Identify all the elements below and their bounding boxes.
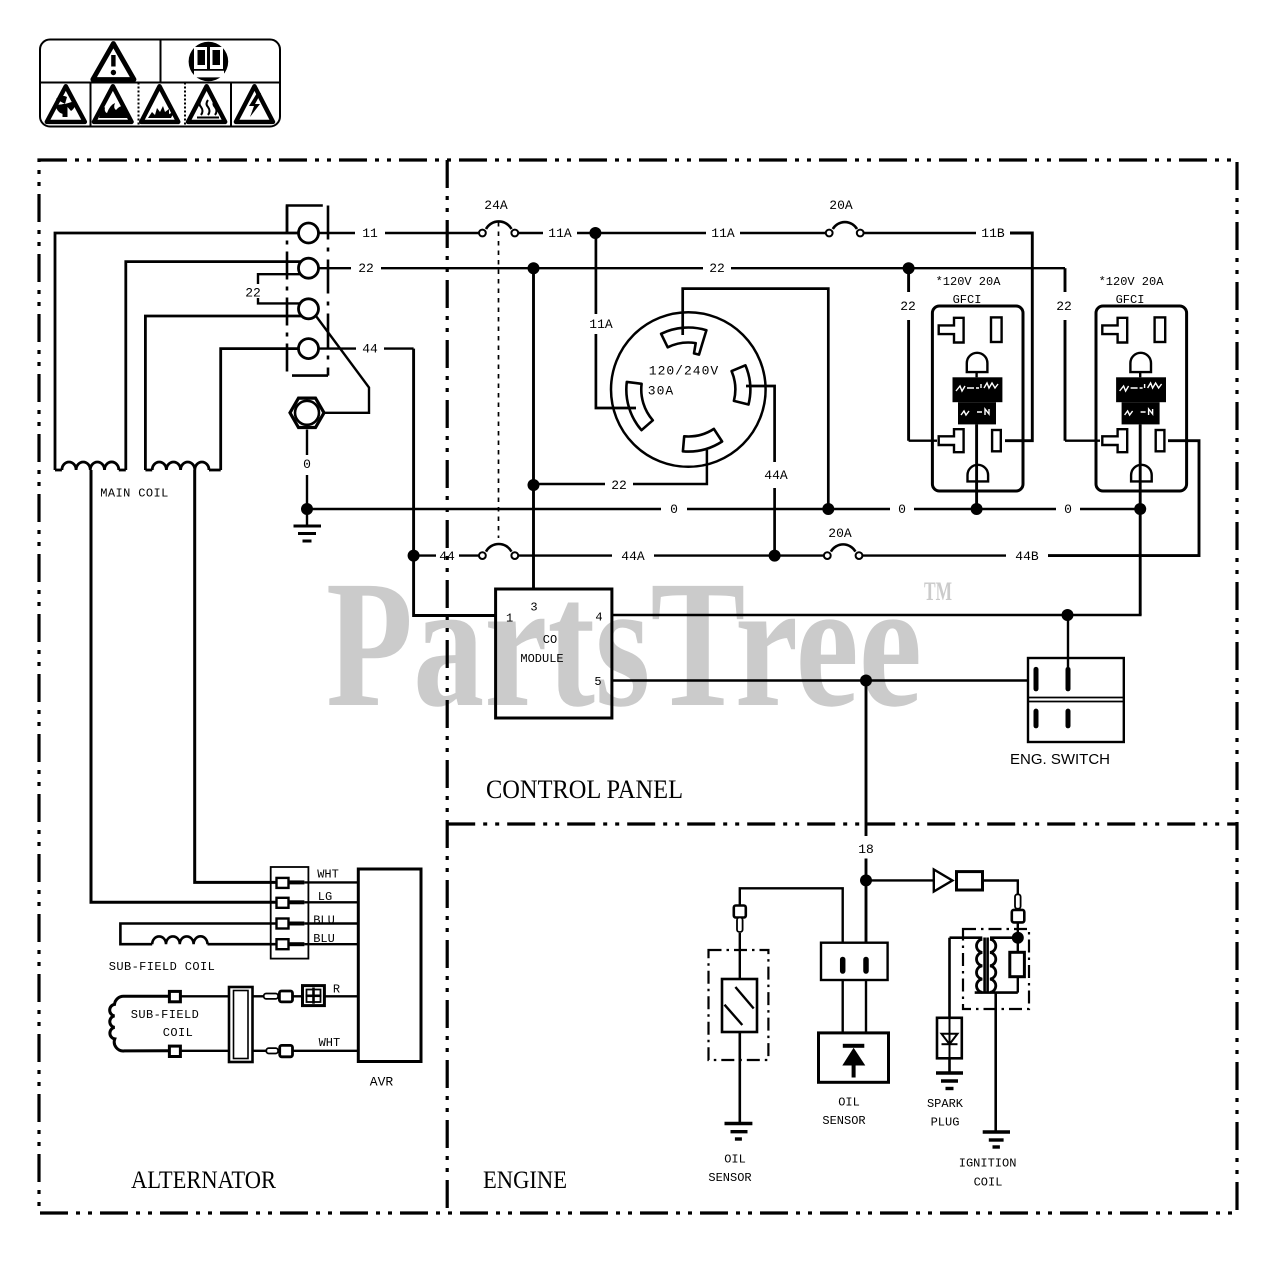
svg-text:20A: 20A xyxy=(828,526,852,541)
junction 22/receptacle bottom xyxy=(528,479,540,491)
right slot 44A xyxy=(746,386,775,462)
GFCI1 xyxy=(932,306,1023,509)
ALTERNATOR SECTION xyxy=(55,233,369,902)
top-right slot xyxy=(1155,317,1166,342)
connector housing xyxy=(229,987,253,1062)
svg-text:24A: 24A xyxy=(484,198,508,213)
ignition connector bullet xyxy=(1012,894,1025,922)
svg-text:4: 4 xyxy=(595,611,602,625)
wire fuse to ignition xyxy=(983,881,1018,953)
ENG switch pins xyxy=(1036,669,1068,726)
top slot with hook xyxy=(661,328,706,355)
warning triangle icon xyxy=(93,44,134,80)
wire 0 bus xyxy=(307,508,1142,510)
svg-text:GFCI: GFCI xyxy=(1116,293,1145,307)
breaker 44A xyxy=(479,544,518,559)
svg-text:22: 22 xyxy=(358,261,374,276)
wires connector to oil sensor 2 xyxy=(843,980,866,1033)
svg-text:11B: 11B xyxy=(981,226,1005,241)
jumper bracket 22 between terminals 2-3 xyxy=(258,274,300,284)
ignition transformer xyxy=(950,938,1018,994)
ground symbol xyxy=(294,509,322,541)
warning label box xyxy=(40,40,280,127)
svg-text:SENSOR: SENSOR xyxy=(822,1114,865,1128)
svg-text:COIL: COIL xyxy=(163,1026,193,1040)
svg-text:R: R xyxy=(333,983,340,997)
svg-text:3: 3 xyxy=(530,601,537,615)
svg-text:CO: CO xyxy=(543,633,557,647)
breaker 20A bottom xyxy=(824,544,863,559)
svg-text:11: 11 xyxy=(362,226,378,241)
core lines xyxy=(983,938,986,994)
svg-text:44B: 44B xyxy=(1015,549,1039,564)
bottom dome xyxy=(968,465,989,482)
diode xyxy=(934,870,953,892)
svg-text:BLU: BLU xyxy=(313,932,335,946)
oil sensor 2 connector box xyxy=(821,943,888,980)
svg-text:22: 22 xyxy=(245,286,261,301)
svg-text:44: 44 xyxy=(362,342,378,357)
svg-text:COIL: COIL xyxy=(974,1176,1003,1190)
svg-text:22: 22 xyxy=(709,261,725,276)
read manual icon xyxy=(189,42,229,82)
main coil 2 tap wire to WHT xyxy=(195,470,277,882)
bottom wire xyxy=(975,991,1018,994)
oil sensor 1 body xyxy=(722,979,757,1032)
wire node18 to diode xyxy=(866,879,934,881)
wire primary to spark plug xyxy=(948,938,951,1018)
svg-text:MAIN COIL: MAIN COIL xyxy=(100,487,168,501)
lower-left T slot xyxy=(1102,429,1127,452)
hazard triangle: explosion xyxy=(141,86,178,122)
WHT wire pin and bullet xyxy=(253,1045,359,1056)
svg-text:0: 0 xyxy=(670,502,678,517)
bottom dome xyxy=(1131,465,1152,482)
wire pin4 row xyxy=(612,614,1142,616)
resistor stem xyxy=(1017,977,1019,993)
wire 22 vertical to CO pin3 xyxy=(532,268,535,589)
receptacle wires xyxy=(534,233,829,556)
wire to oil sensor 1 xyxy=(740,888,843,979)
svg-text:ENG. SWITCH: ENG. SWITCH xyxy=(1010,751,1110,768)
main coil 2 xyxy=(145,462,220,470)
junction pin4/switch xyxy=(1062,609,1074,621)
R wire pin and bullet xyxy=(253,991,303,1002)
ignition resistor xyxy=(1010,952,1025,976)
junction 44A receptacle xyxy=(769,550,781,562)
svg-text:OIL: OIL xyxy=(724,1153,746,1167)
svg-text:LG: LG xyxy=(318,890,332,904)
oil sensor 1 dash-dot box xyxy=(709,950,769,1060)
svg-text:AVR: AVR xyxy=(370,1075,394,1090)
wire 22 row xyxy=(319,268,1101,441)
svg-text:120/240V: 120/240V xyxy=(649,364,719,379)
secondary winding xyxy=(990,939,996,992)
lower-left T slot xyxy=(939,429,964,452)
wire 11 row xyxy=(319,233,1033,441)
terminal LG xyxy=(277,898,305,908)
top-left T slot xyxy=(939,318,964,343)
ground ignition xyxy=(983,1132,1010,1147)
terminal circle 11 xyxy=(299,223,319,243)
AVR terminal block xyxy=(271,867,309,959)
svg-text:SUB-FIELD COIL: SUB-FIELD COIL xyxy=(109,960,215,974)
main coil 1 xyxy=(55,462,126,470)
wire 18 vertical xyxy=(865,681,868,943)
svg-text:0: 0 xyxy=(898,502,906,517)
coil2 terminal squares xyxy=(169,991,180,1001)
GFCI2 xyxy=(1096,306,1187,615)
terminal BLU1 xyxy=(277,919,305,929)
svg-text:PartsTree: PartsTree xyxy=(326,544,922,745)
bottom slot 22 xyxy=(633,450,707,484)
junction pin5/switch xyxy=(860,675,872,687)
test/reset block xyxy=(1116,377,1166,402)
hazard triangle: hot surface xyxy=(188,86,225,122)
sub-field coil 1 xyxy=(120,924,276,945)
center wire xyxy=(1139,424,1142,615)
junction gfci2/0 xyxy=(1134,503,1146,515)
oil sensor 2 box xyxy=(819,1033,889,1082)
left slot xyxy=(626,382,652,430)
svg-text:44A: 44A xyxy=(764,468,788,483)
terminal connector block xyxy=(287,206,328,376)
lower-right slot xyxy=(992,430,1001,451)
section border outer xyxy=(39,160,1237,1213)
wire oil sensor 1 to ground xyxy=(738,1032,741,1124)
wire 44 label row terminal4 xyxy=(319,349,497,616)
junction 22/pin3 xyxy=(528,262,540,274)
hazard triangle: fire xyxy=(94,86,132,122)
oil sensor 2 diode xyxy=(842,1044,865,1078)
svg-text:5: 5 xyxy=(594,675,601,689)
junction 22 gfci1 xyxy=(903,262,915,274)
primary winding xyxy=(977,939,983,992)
test/reset block xyxy=(953,377,1003,402)
winding top leads xyxy=(950,936,983,939)
CO module box xyxy=(496,589,612,718)
svg-text:*120V 20A: *120V 20A xyxy=(936,275,1002,289)
junction ignition top xyxy=(1012,932,1024,944)
junction gfci1/0 xyxy=(971,503,983,515)
breaker 20A top xyxy=(826,222,864,236)
terminal circle 3 xyxy=(299,299,319,319)
section divider control panel/engine horizontal xyxy=(447,822,1237,825)
svg-text:WHT: WHT xyxy=(317,868,339,882)
svg-text:20A: 20A xyxy=(829,198,853,213)
wire 44A row xyxy=(414,441,1199,556)
top slot to 0 bus xyxy=(683,289,829,509)
wire pin5 row xyxy=(612,679,1028,681)
svg-text:BLU: BLU xyxy=(313,913,335,927)
wires to housing xyxy=(180,996,229,1051)
wire terminal4 to coil2 right xyxy=(221,349,299,470)
ignition dash-dot box xyxy=(963,929,1029,1009)
receptacle 120/240V 30A xyxy=(611,312,766,467)
svg-text:11A: 11A xyxy=(589,317,613,332)
svg-text:11A: 11A xyxy=(711,226,735,241)
svg-text:22: 22 xyxy=(1056,299,1072,314)
svg-text:MODULE: MODULE xyxy=(520,652,563,666)
junction 44 xyxy=(408,550,420,562)
terminal BLU2 xyxy=(277,939,305,949)
oil sensor 2 connector pins xyxy=(843,960,866,972)
wire 22 terminal2 to coil1 right xyxy=(126,262,301,470)
svg-text:18: 18 xyxy=(858,842,874,857)
AVR box xyxy=(358,869,421,1062)
wire spark plug ground xyxy=(948,1058,951,1073)
sub-field coil 2 hairpin xyxy=(110,996,170,1051)
top-left T slot xyxy=(1102,318,1127,343)
hazard triangle: electric shock xyxy=(236,86,273,122)
svg-text:WHT: WHT xyxy=(319,1036,341,1050)
ground dome upper xyxy=(1130,353,1151,372)
center wire xyxy=(975,424,978,509)
lower-right slot xyxy=(1156,430,1165,451)
svg-text:SUB-FIELD: SUB-FIELD xyxy=(131,1008,199,1022)
breaker linkage dashed xyxy=(498,222,500,538)
wire switch top pin xyxy=(1067,615,1069,668)
svg-text:SENSOR: SENSOR xyxy=(708,1171,751,1185)
wire terminal3 diagonal to hex terminal xyxy=(316,316,369,413)
wire R to AVR xyxy=(324,995,358,997)
svg-text:CONTROL PANEL: CONTROL PANEL xyxy=(486,775,683,804)
section divider alternator/engine vertical xyxy=(446,160,449,1213)
wire terminal3 to coil2 left xyxy=(145,316,301,470)
svg-text:1: 1 xyxy=(506,612,513,626)
svg-text:PLUG: PLUG xyxy=(931,1116,960,1130)
hazard triangle: rotating parts xyxy=(47,86,85,122)
svg-text:0: 0 xyxy=(1064,502,1072,517)
svg-text:11A: 11A xyxy=(548,226,572,241)
svg-text:ALTERNATOR: ALTERNATOR xyxy=(131,1167,276,1194)
watermark PartsTree xyxy=(326,544,952,745)
svg-text:IGNITION: IGNITION xyxy=(959,1157,1017,1171)
main coil 1 tap wire to LG xyxy=(91,470,277,902)
junction ground node xyxy=(301,503,313,515)
terminal circle 22 xyxy=(299,258,319,278)
oil sensor 1 connector bullet xyxy=(734,906,746,933)
svg-text:TM: TM xyxy=(924,577,952,606)
terminal WHT xyxy=(277,878,305,888)
svg-text:22: 22 xyxy=(611,478,627,493)
ground spark plug xyxy=(936,1073,963,1089)
ground oil sensor 1 xyxy=(725,1124,753,1140)
svg-text:ENGINE: ENGINE xyxy=(483,1167,567,1194)
svg-text:SPARK: SPARK xyxy=(927,1097,964,1111)
fuse rect xyxy=(957,872,983,890)
spark plug box xyxy=(937,1018,962,1059)
top-right slot xyxy=(991,317,1002,342)
wire ignition to ground xyxy=(994,993,997,1132)
wire 11 terminal to left coil xyxy=(55,233,299,470)
svg-text:22: 22 xyxy=(900,299,916,314)
terminal circle 44 xyxy=(299,339,319,359)
svg-text:*120V 20A: *120V 20A xyxy=(1099,275,1165,289)
bottom slot xyxy=(683,429,722,452)
wire hex to ground node xyxy=(306,430,308,456)
right slot xyxy=(732,365,751,404)
fuse boxed plus xyxy=(303,986,325,1006)
spark plug gap symbol xyxy=(942,1018,958,1059)
breaker 24A xyxy=(479,221,518,236)
svg-text:0: 0 xyxy=(303,457,311,472)
hexagon ground terminal xyxy=(290,398,324,427)
junction node 18 xyxy=(860,874,872,886)
svg-text:GFCI: GFCI xyxy=(953,293,982,307)
ground dome upper xyxy=(967,353,988,372)
wire 22 down to gfci1 xyxy=(909,268,937,441)
wires terminals to AVR xyxy=(304,882,358,944)
receptacle slots xyxy=(626,328,750,452)
svg-text:30A: 30A xyxy=(648,384,674,399)
junction 0/receptacle xyxy=(822,503,834,515)
junction 11A xyxy=(589,227,601,239)
ENG switch box xyxy=(1028,658,1124,742)
svg-text:44A: 44A xyxy=(621,549,645,564)
svg-text:44: 44 xyxy=(439,549,455,564)
svg-text:OIL: OIL xyxy=(838,1096,860,1110)
left slot 11A xyxy=(596,334,636,408)
